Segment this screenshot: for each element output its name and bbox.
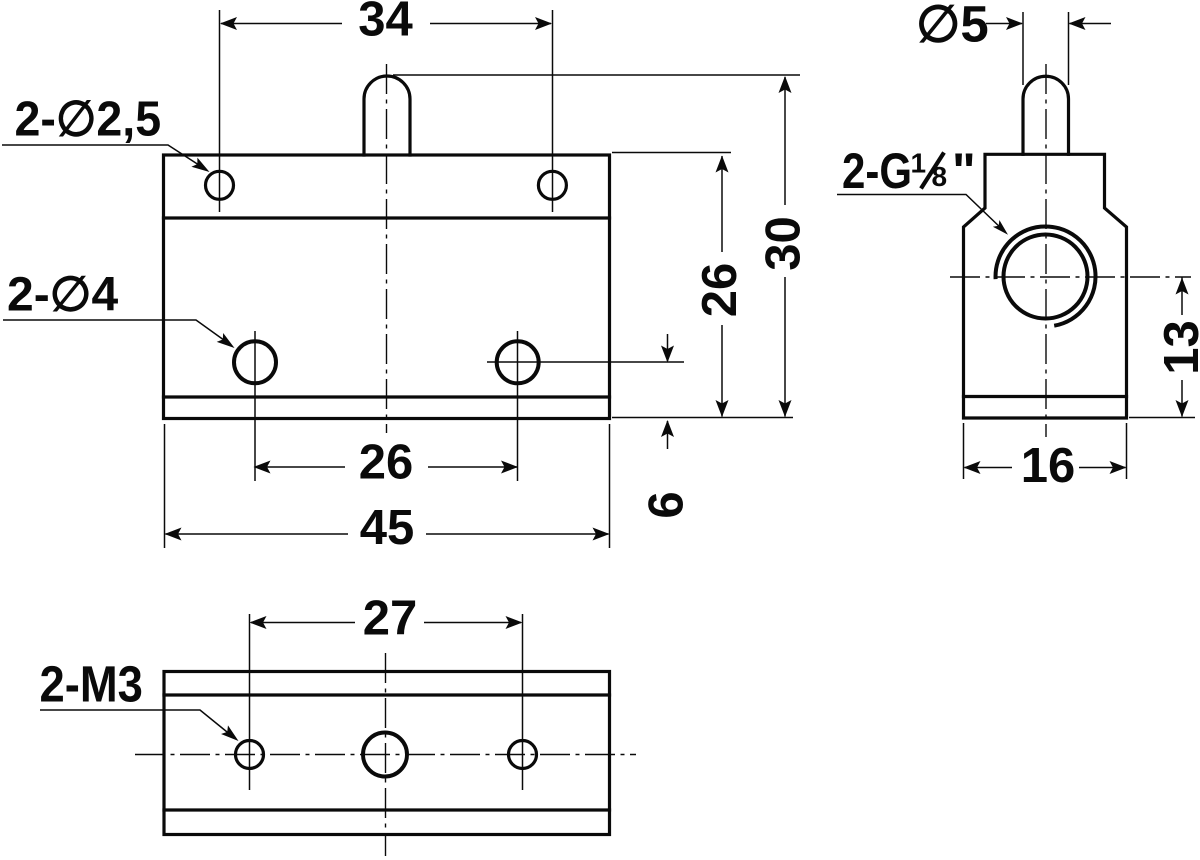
ext line small hole right	[552, 10, 554, 212]
ext line small hole left	[219, 10, 221, 212]
leader 2-d2,5	[2, 145, 202, 167]
ext line hole center right	[487, 361, 684, 363]
ext line plunger top	[393, 74, 800, 76]
svg-text:30: 30	[757, 216, 811, 271]
ext line body top right	[612, 152, 731, 154]
vertical centerline	[386, 64, 388, 433]
horizontal centerline	[135, 754, 636, 756]
ext line hole right	[522, 614, 524, 790]
body outline with chamfers	[964, 154, 1127, 418]
svg-text:∅5: ∅5	[916, 0, 989, 53]
leader 2-G1/8	[837, 195, 1004, 232]
ext line body bottom right	[612, 417, 793, 419]
ext line big hole right	[517, 331, 519, 481]
svg-text:16: 16	[1021, 439, 1076, 493]
top band line	[164, 216, 610, 219]
leader 2-d4	[3, 320, 228, 343]
side vertical centerline	[1045, 64, 1047, 437]
small hole right	[538, 171, 566, 199]
svg-text:": "	[952, 143, 976, 199]
plunger	[364, 76, 410, 155]
dim 26 vertical	[721, 156, 723, 252]
bottom band line	[964, 395, 1127, 398]
big hole right	[497, 341, 539, 383]
dim 34	[221, 23, 342, 25]
svg-text:26: 26	[693, 263, 747, 318]
body outline	[164, 155, 610, 419]
svg-text:2-M3: 2-M3	[40, 656, 143, 713]
dim 45	[166, 533, 349, 535]
svg-text:45: 45	[360, 501, 415, 555]
ext line body left	[164, 424, 166, 548]
dim 30 vertical	[784, 77, 786, 205]
ext line plunger left	[1022, 12, 1024, 85]
plunger	[1023, 76, 1069, 154]
ext line body right (16)	[1126, 423, 1128, 479]
svg-text:2-G: 2-G	[842, 143, 912, 199]
port inner circle	[1004, 235, 1088, 319]
ext line plunger right	[1068, 12, 1070, 85]
small hole left	[206, 171, 234, 199]
dim 16	[965, 467, 1013, 469]
svg-text:8: 8	[932, 161, 948, 192]
bottom band line	[164, 808, 610, 811]
port thread arc	[996, 226, 1096, 325]
vertical centerline	[385, 653, 387, 856]
svg-text:26: 26	[359, 436, 414, 490]
top band line	[164, 693, 610, 696]
bottom band line	[164, 395, 610, 398]
ext line big hole left	[254, 331, 256, 481]
svg-text:6: 6	[640, 491, 694, 518]
leader 2-M3	[40, 710, 232, 736]
svg-text:34: 34	[358, 0, 413, 47]
dim 26 bottom	[255, 466, 346, 468]
body outline	[164, 672, 610, 835]
ext line body bottom right (13)	[1129, 417, 1195, 419]
svg-text:13: 13	[1155, 320, 1200, 375]
ext line hole left	[249, 614, 251, 790]
ext line body left (16)	[963, 423, 965, 479]
svg-text:1: 1	[911, 148, 927, 179]
hole M3 right	[509, 741, 537, 769]
hole M3 left	[236, 741, 264, 769]
dim 27	[251, 622, 355, 624]
ext line body right	[609, 424, 611, 548]
dim 6	[667, 334, 669, 361]
port horizontal centerline	[950, 276, 1191, 278]
big hole left	[234, 341, 276, 383]
svg-text:2-∅2,5: 2-∅2,5	[15, 92, 162, 146]
svg-text:27: 27	[363, 592, 418, 646]
dim 13	[1181, 278, 1183, 316]
hole middle	[363, 733, 407, 777]
svg-text:2-∅4: 2-∅4	[7, 269, 118, 322]
